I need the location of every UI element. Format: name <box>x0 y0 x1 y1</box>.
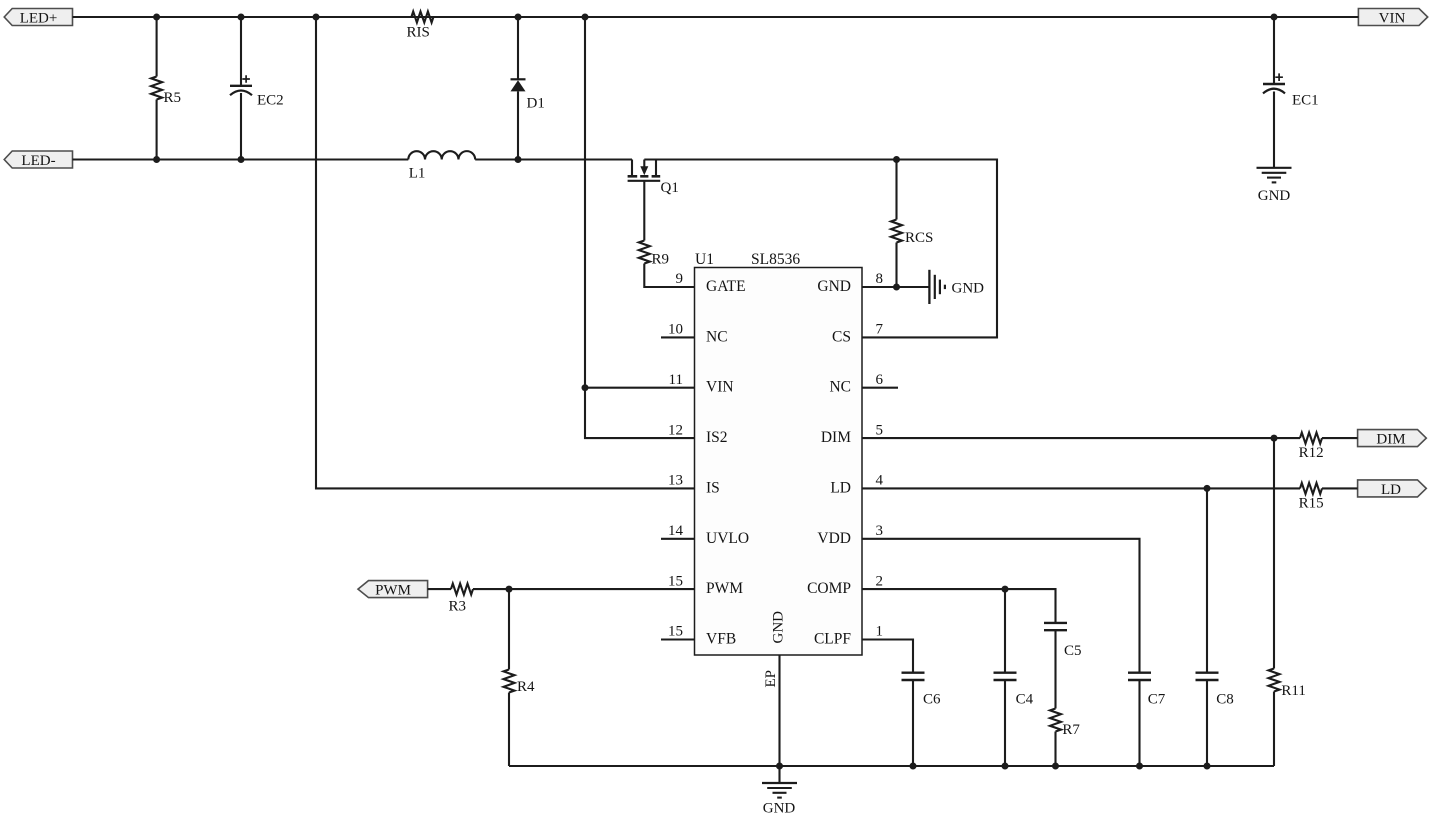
port flag LED+ <box>4 9 72 27</box>
wire DIM pin 5 <box>862 437 1358 439</box>
svg-text:CS: CS <box>832 328 851 345</box>
resistor R3 <box>428 584 695 615</box>
svg-text:R4: R4 <box>517 679 535 695</box>
svg-text:LD: LD <box>830 479 851 496</box>
wire stub pin 6 NC <box>862 387 898 389</box>
svg-text:CLPF: CLPF <box>814 631 851 648</box>
capacitor EC2 (electrolytic) <box>230 17 284 160</box>
port flag LD <box>1358 480 1427 498</box>
ground symbol (EP) <box>762 783 797 817</box>
svg-text:COMP: COMP <box>807 580 851 597</box>
capacitor C4 <box>994 589 1034 766</box>
wire CLPF pin 1 to C6 <box>862 640 913 673</box>
resistor R5 <box>151 17 181 160</box>
svg-text:Q1: Q1 <box>661 180 679 196</box>
wire VIN pin 11 <box>585 387 695 389</box>
svg-text:R3: R3 <box>449 599 467 615</box>
svg-text:NC: NC <box>706 328 728 345</box>
svg-text:U1: U1 <box>695 251 714 268</box>
junction node dots <box>153 14 1277 770</box>
capacitor EC1 (electrolytic) <box>1263 17 1319 168</box>
wire IS branch (top rail to pin 13) <box>316 17 695 488</box>
svg-text:GND: GND <box>771 611 787 644</box>
wire VDD pin 3 to C7 <box>862 539 1140 673</box>
resistor R7 <box>1050 709 1080 767</box>
wire bottom ground rail <box>509 765 1274 767</box>
svg-text:LED+: LED+ <box>20 10 58 26</box>
ground symbol (EC1) <box>1257 168 1292 204</box>
IC pin names right <box>807 278 851 648</box>
wire LED- rail right to CS pin 7 <box>644 160 997 338</box>
svg-text:14: 14 <box>668 523 684 539</box>
svg-text:C6: C6 <box>923 692 941 708</box>
svg-text:6: 6 <box>876 372 884 388</box>
svg-text:11: 11 <box>669 372 683 388</box>
capacitor C6 <box>902 673 942 766</box>
wire EP pad <box>778 655 780 783</box>
port flag DIM <box>1358 430 1427 448</box>
pin numbers right <box>876 271 884 640</box>
resistor RCS <box>891 160 933 288</box>
svg-text:1: 1 <box>876 624 884 640</box>
svg-text:GND: GND <box>817 278 851 295</box>
svg-text:RIS: RIS <box>407 25 430 41</box>
resistor R11 <box>1269 438 1306 766</box>
svg-text:D1: D1 <box>527 96 545 112</box>
port flag LED- <box>4 151 72 169</box>
svg-text:GND: GND <box>952 280 985 296</box>
svg-text:C8: C8 <box>1216 692 1234 708</box>
svg-text:R15: R15 <box>1299 496 1324 512</box>
svg-text:R5: R5 <box>164 90 182 106</box>
wire stub pin 14 UVLO <box>661 538 695 540</box>
svg-text:10: 10 <box>668 322 683 338</box>
svg-text:VIN: VIN <box>706 379 734 396</box>
svg-text:15: 15 <box>668 573 683 589</box>
IC U1 SL8536 body <box>695 251 863 655</box>
resistor R9 and gate wire to pin 9 <box>639 181 695 287</box>
svg-text:9: 9 <box>676 271 684 287</box>
svg-text:C4: C4 <box>1016 692 1034 708</box>
svg-text:EC1: EC1 <box>1292 92 1319 108</box>
svg-text:12: 12 <box>668 422 683 438</box>
svg-text:8: 8 <box>876 271 884 287</box>
svg-text:UVLO: UVLO <box>706 530 749 547</box>
wire GND pin 8 <box>862 286 929 288</box>
svg-text:VDD: VDD <box>817 530 851 547</box>
svg-text:R11: R11 <box>1281 683 1305 699</box>
svg-text:GND: GND <box>763 801 796 817</box>
svg-text:C7: C7 <box>1148 692 1166 708</box>
capacitor C8 <box>1196 488 1234 766</box>
wire stub pin 10 NC <box>661 336 695 338</box>
resistor R12 <box>1299 433 1324 462</box>
svg-text:GATE: GATE <box>706 278 746 295</box>
svg-text:VIN: VIN <box>1379 10 1406 26</box>
wire VIN/IS2 branch (top rail to pin 12) <box>585 17 695 438</box>
IC pin names left <box>706 278 749 648</box>
pin numbers left <box>668 271 684 640</box>
svg-text:2: 2 <box>876 573 884 589</box>
wire top rail LED+/VIN <box>73 16 1359 18</box>
capacitor C5 <box>1044 623 1082 709</box>
svg-text:SL8536: SL8536 <box>751 251 800 268</box>
wire LD pin 4 <box>862 487 1358 489</box>
resistor R15 <box>1299 483 1324 512</box>
svg-text:R7: R7 <box>1062 722 1080 738</box>
capacitor C7 <box>1128 673 1166 766</box>
svg-text:VFB: VFB <box>706 631 736 648</box>
svg-text:5: 5 <box>876 422 884 438</box>
diode D1 <box>511 17 545 160</box>
port flag PWM <box>358 581 428 599</box>
svg-text:7: 7 <box>876 322 884 338</box>
svg-text:R12: R12 <box>1299 445 1324 461</box>
wire stub pin 15 VFB <box>661 638 695 640</box>
svg-text:3: 3 <box>876 523 884 539</box>
port flag VIN <box>1358 9 1427 27</box>
svg-text:L1: L1 <box>409 166 426 182</box>
inductor L1 <box>408 151 475 181</box>
svg-text:DIM: DIM <box>821 429 851 446</box>
transistor Q1 (N-MOSFET) <box>628 160 679 197</box>
svg-text:13: 13 <box>668 473 683 489</box>
resistor R4 <box>504 589 536 766</box>
svg-text:4: 4 <box>876 473 884 489</box>
wire LED- rail left <box>73 158 409 160</box>
wire COMP pin 2 <box>862 589 1056 623</box>
resistor RIS <box>407 12 434 41</box>
ground symbol (pin 8, rotated) <box>929 270 984 304</box>
svg-text:PWM: PWM <box>706 580 743 597</box>
svg-text:PWM: PWM <box>375 583 411 599</box>
svg-text:EP: EP <box>763 670 779 688</box>
svg-text:DIM: DIM <box>1376 432 1405 448</box>
svg-text:IS: IS <box>706 479 720 496</box>
svg-text:NC: NC <box>829 379 851 396</box>
svg-text:GND: GND <box>1258 188 1291 204</box>
svg-text:C5: C5 <box>1064 643 1082 659</box>
svg-text:15: 15 <box>668 624 683 640</box>
svg-text:R9: R9 <box>652 252 670 268</box>
svg-text:IS2: IS2 <box>706 429 728 446</box>
svg-text:EC2: EC2 <box>257 92 284 108</box>
svg-text:RCS: RCS <box>905 230 933 246</box>
svg-text:LD: LD <box>1381 482 1401 498</box>
svg-text:LED-: LED- <box>21 153 55 169</box>
